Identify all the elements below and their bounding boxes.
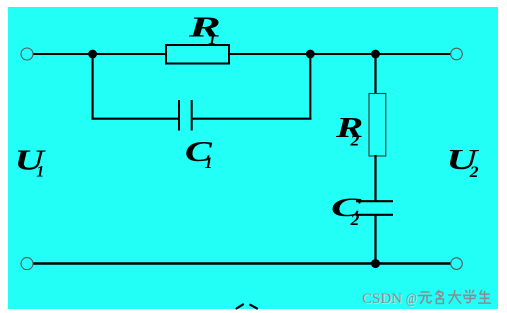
svg-text:1: 1 [208,31,216,48]
名 [436,291,444,304]
terminal output top [451,48,463,60]
wire R2 to C2 [374,155,376,201]
大 [449,291,461,304]
wire C1 branch right drop [309,54,311,120]
wire C2 to bottom rail [374,215,376,264]
生 [479,291,491,304]
svg-text:CSDN: CSDN [362,291,402,307]
wire top rail [32,53,452,55]
svg-text:2: 2 [349,212,359,229]
label R2 [335,113,364,150]
label U2 [446,145,480,181]
terminal input top [21,48,33,60]
svg-text:2: 2 [349,133,359,150]
terminal output bottom [451,258,463,270]
node top junction after R1 [306,50,315,59]
watermark shadow [363,292,418,308]
label C2 [331,193,362,229]
label R1 [187,13,221,49]
node bottom junction [371,259,380,268]
svg-text:@: @ [406,291,417,307]
capacitor C2 [356,201,393,215]
resistor R1 [166,45,229,64]
label U1 [15,145,47,180]
watermark CSDN @无名大学生 [362,290,491,308]
capacitor C1 [179,100,192,131]
学 [464,290,476,303]
wire C1 branch right horizontal [193,118,312,120]
CJK glyph strokes drawn as paths (无名大学生) [419,290,491,303]
label C1 [185,137,213,172]
svg-text:1: 1 [205,155,213,172]
wire C1 branch left horizontal [92,118,179,120]
wire C1 branch left drop [92,54,94,120]
wire output branch upper [374,54,376,95]
wire bottom rail [32,262,452,265]
caption (a) clipped at panel bottom [237,304,258,308]
svg-text:2: 2 [469,164,479,181]
terminal input bottom [21,258,33,270]
node top-left junction [88,50,97,59]
resistor R2 [369,94,386,157]
svg-text:1: 1 [36,163,44,180]
node top junction R2 tap [371,50,380,59]
无 [419,292,432,303]
